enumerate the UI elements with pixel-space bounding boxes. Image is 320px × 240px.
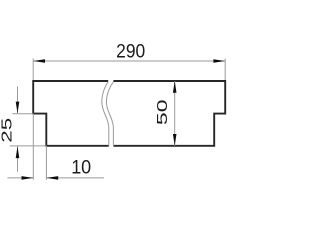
dimension 25 line upper part xyxy=(17,86,19,113)
dimension 290 extension line left xyxy=(32,59,34,82)
profile outline left half: top edge, left edge, step, notch inner edge, bottom edge xyxy=(33,81,109,146)
break line right curve xyxy=(106,82,113,146)
dimension 10 arrow right (points left) xyxy=(46,176,58,180)
svg-text:50: 50 xyxy=(155,100,171,126)
svg-text:10: 10 xyxy=(71,157,91,178)
dimension 10 line left segment xyxy=(7,177,33,179)
dimension 25 arrow lower (points up) xyxy=(16,146,20,158)
dimension 10 line right segment xyxy=(46,177,104,179)
dimension 290 arrow right xyxy=(213,59,225,63)
svg-text:25: 25 xyxy=(0,118,16,143)
dimension 25 extension line top xyxy=(12,113,33,115)
profile outline right half: top edge, right edge, step, notch inner edge, bottom edge xyxy=(113,81,225,146)
dimension 290 line xyxy=(33,60,225,62)
dimension 290 arrow left xyxy=(33,59,45,63)
dimension 290 extension line right xyxy=(224,59,226,82)
dimension 50 arrow top xyxy=(173,81,177,93)
dimension 50 line xyxy=(174,81,176,146)
dimension 50 arrow bottom xyxy=(173,134,177,146)
break line left curve xyxy=(102,82,109,146)
dimension 10 extension line left xyxy=(32,114,34,180)
dimension 25 arrow upper (points down) xyxy=(16,102,20,114)
dimension 10 extension line right xyxy=(45,146,47,180)
dimension 25 extension line bottom xyxy=(10,145,47,147)
svg-text:290: 290 xyxy=(116,40,145,62)
dimension 10 arrow left (points right) xyxy=(22,176,34,180)
dimension 25 line lower part xyxy=(17,146,19,171)
